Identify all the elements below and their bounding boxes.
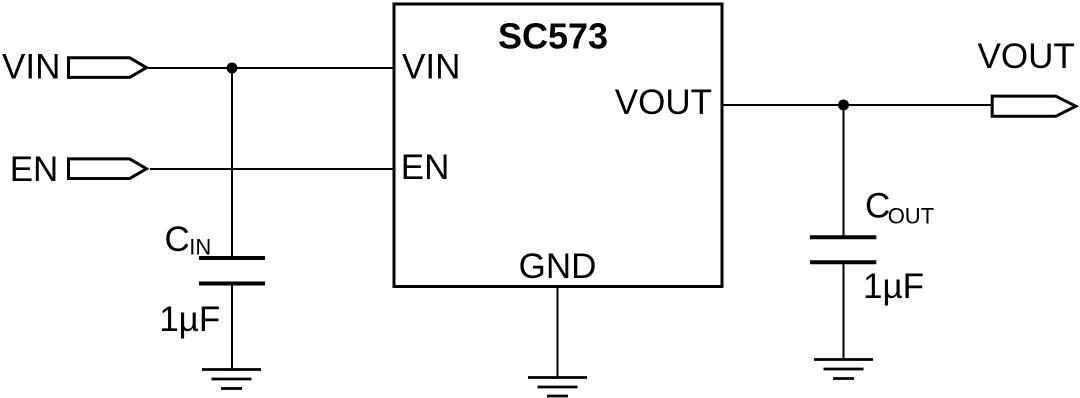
svg-text:GND: GND [519, 247, 597, 286]
svg-text:C: C [865, 187, 890, 226]
svg-text:OUT: OUT [888, 203, 934, 228]
svg-text:VIN: VIN [2, 48, 60, 87]
svg-text:VOUT: VOUT [615, 83, 712, 122]
svg-text:VOUT: VOUT [978, 37, 1075, 76]
svg-text:EN: EN [10, 150, 59, 189]
svg-text:SC573: SC573 [498, 16, 608, 57]
svg-text:IN: IN [189, 235, 211, 260]
svg-text:EN: EN [401, 148, 450, 187]
svg-text:1µF: 1µF [863, 267, 924, 306]
svg-text:C: C [165, 220, 190, 259]
svg-text:VIN: VIN [402, 47, 460, 86]
svg-text:1µF: 1µF [159, 300, 220, 339]
